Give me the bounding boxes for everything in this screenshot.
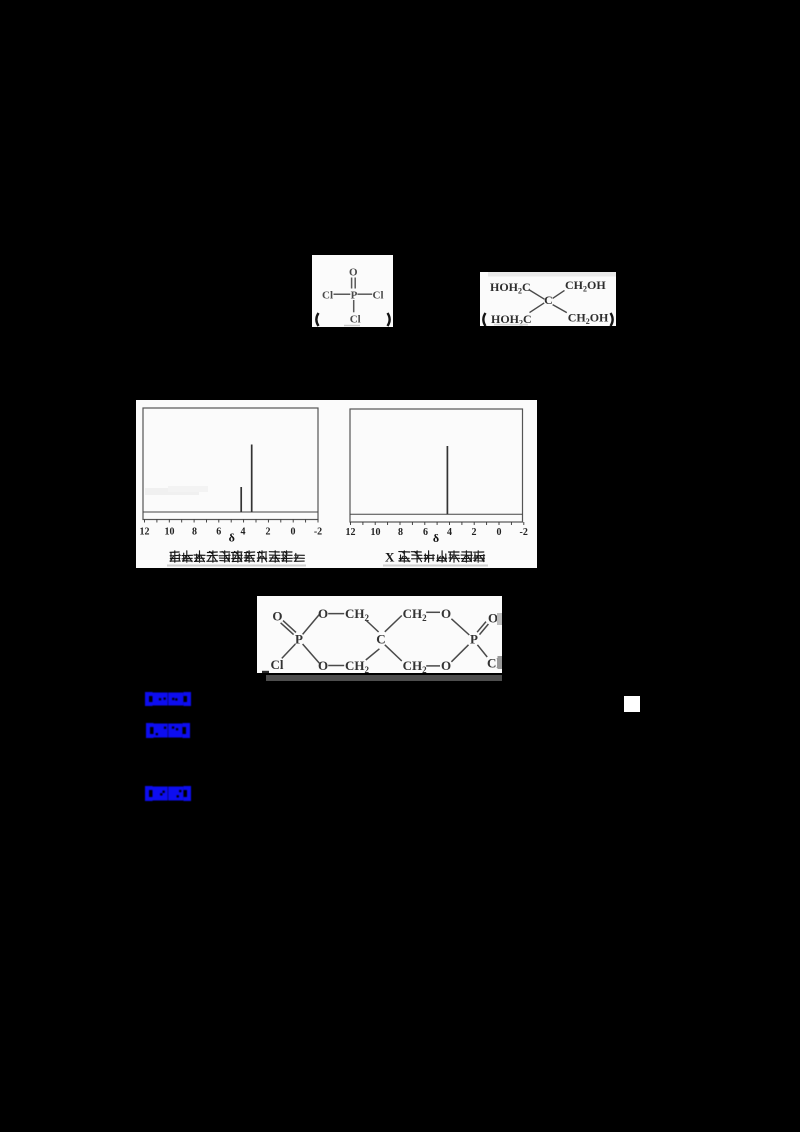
bond C to top-left [529, 290, 545, 300]
bond P-O down [303, 644, 320, 663]
svg-text:2: 2 [266, 527, 271, 538]
svg-text:δ: δ [433, 531, 439, 545]
bond P-Cl right [477, 645, 487, 657]
gray scan strip right edge upper [497, 613, 502, 625]
bond C-CH2 top-right [385, 616, 402, 632]
NMR spectra image box [136, 400, 537, 568]
svg-text:X: X [385, 550, 395, 565]
left spectrum tall peak (delta 3.3) [251, 445, 253, 513]
bond C to bottom-left [530, 303, 545, 313]
right parenthesis glyph [388, 313, 390, 326]
double bond O=P left [281, 621, 296, 635]
dark notch bottom-left corner [262, 671, 269, 673]
svg-text:O: O [488, 611, 498, 626]
svg-text:O: O [349, 266, 358, 278]
svg-text:O: O [318, 606, 328, 621]
bond P-Cl [357, 293, 372, 295]
left caption: pentaerythritol 1H-NMR [170, 551, 180, 562]
svg-text:Cl: Cl [322, 289, 333, 301]
svg-text:6: 6 [216, 527, 221, 538]
left caption shadow [167, 565, 306, 567]
bond P-Cl (down) [353, 300, 355, 312]
svg-text:O: O [318, 658, 328, 673]
svg-text:-2: -2 [314, 527, 322, 538]
svg-text:0: 0 [497, 527, 502, 538]
bond C to bottom-right [553, 305, 567, 313]
right axis ticks [351, 522, 524, 525]
right parenthesis glyph [611, 313, 613, 326]
blue label 1 (kaodian) [144, 692, 192, 706]
bond Cl-P [334, 293, 351, 295]
svg-text:0: 0 [291, 527, 296, 538]
svg-text:O: O [441, 606, 451, 621]
svg-text:HOH2C: HOH2C [490, 280, 531, 296]
svg-text:12: 12 [140, 527, 150, 538]
svg-text:Cl: Cl [271, 657, 284, 672]
POCl3 structure image box [312, 255, 393, 327]
faint scan band top [488, 272, 616, 277]
right spectrum baseline [350, 513, 523, 515]
bond O-CH2 bottom-left [328, 665, 344, 667]
svg-text:2: 2 [472, 527, 477, 538]
gray scan strip right edge lower [498, 656, 503, 669]
svg-text:8: 8 [192, 527, 197, 538]
left spectrum baseline [143, 511, 318, 513]
pentaerythritol structure image box [480, 272, 616, 326]
blue label 3 (fenxi) [144, 786, 192, 801]
svg-text:O: O [272, 608, 282, 623]
svg-text:δ: δ [229, 531, 235, 545]
svg-text:P: P [295, 631, 303, 646]
bond CH2-O bottom-right [426, 665, 440, 667]
white square marker [624, 696, 640, 712]
double bond O=P [352, 278, 356, 289]
right caption shadow [383, 565, 488, 567]
left parenthesis glyph [316, 313, 318, 326]
svg-text:4: 4 [241, 527, 246, 538]
bond P-Cl left [282, 644, 296, 658]
bond CH2-C bottom-left [366, 649, 380, 660]
svg-text:12: 12 [346, 527, 356, 538]
left spectrum frame [143, 408, 318, 520]
blue label 2 (zhuanti) [145, 723, 191, 738]
svg-text:Cl: Cl [373, 289, 384, 301]
svg-text:10: 10 [371, 527, 381, 538]
svg-text:O: O [441, 658, 451, 673]
right spectrum peak (delta 4.2) [446, 446, 448, 514]
bond CH2-C top-left [366, 620, 379, 632]
svg-text:C: C [376, 631, 385, 646]
bond O-CH2 top-left [328, 613, 344, 615]
right spectrum frame [350, 409, 523, 522]
scan smudge under bottom Cl [344, 325, 360, 326]
bond O-P top-right [451, 619, 469, 635]
bond C-CH2 bottom-right [385, 645, 402, 661]
faint smudge inside left spectrum [145, 488, 199, 495]
spiro diphosphate structure image box [257, 596, 502, 673]
shadow bar under phosphate box [266, 675, 502, 681]
bond O-P bottom-right [451, 645, 468, 662]
svg-text:C: C [544, 293, 553, 307]
svg-text:P: P [351, 289, 358, 301]
svg-text:6: 6 [423, 527, 428, 538]
bond P-O up [303, 614, 320, 634]
bond C to top-right [553, 290, 565, 298]
scan smudge bottom-left [494, 324, 528, 326]
bond CH2-O top-right [426, 611, 440, 613]
svg-text:-2: -2 [520, 527, 528, 538]
svg-text:4: 4 [447, 527, 452, 538]
svg-text:Cl: Cl [350, 313, 361, 325]
left axis ticks [145, 520, 319, 523]
svg-text:P: P [470, 631, 478, 646]
svg-text:8: 8 [398, 527, 403, 538]
svg-text:10: 10 [165, 527, 175, 538]
double bond P=O right [477, 622, 488, 635]
left spectrum short peak (delta 4.2) [240, 487, 242, 512]
left parenthesis glyph [483, 313, 485, 326]
